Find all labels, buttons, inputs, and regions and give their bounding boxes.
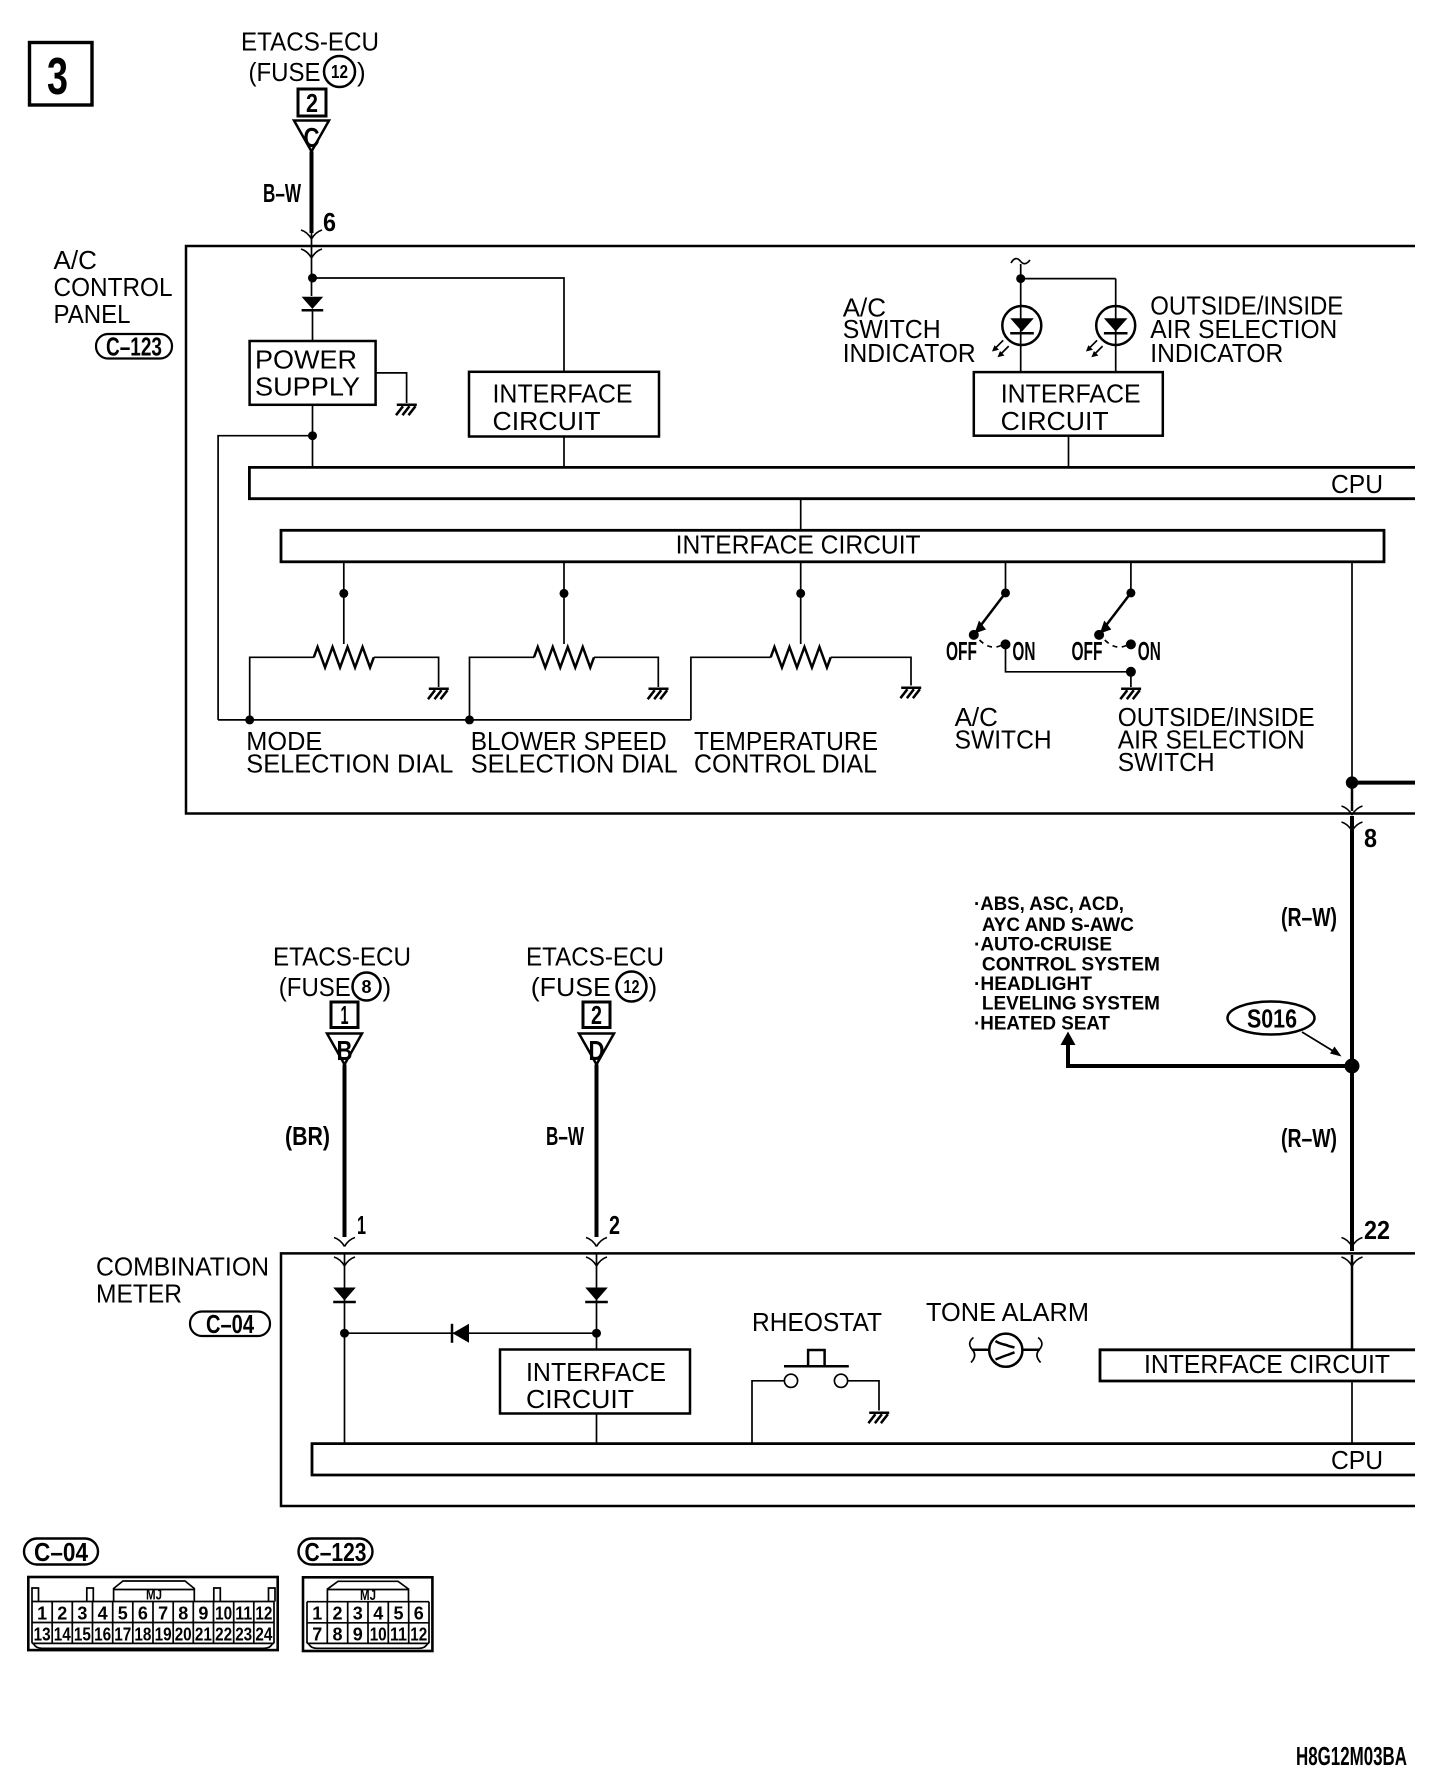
svg-text:·ABS, ASC, ACD,: ·ABS, ASC, ACD, <box>974 893 1124 915</box>
svg-text:ETACS-ECU: ETACS-ECU <box>273 942 411 972</box>
contact OFF (air selection switch) <box>1094 630 1104 640</box>
svg-text:3: 3 <box>47 48 68 106</box>
wire interface box U3 to CPU <box>596 1414 598 1444</box>
svg-text:CONTROL: CONTROL <box>54 272 173 302</box>
wire pin6 into panel <box>311 233 313 296</box>
svg-text:20: 20 <box>175 1625 192 1645</box>
svg-text:8: 8 <box>178 1604 188 1624</box>
arrowhead switch arm <box>975 621 987 634</box>
svg-text:(FUSE: (FUSE <box>249 57 321 87</box>
node switch common junction <box>1126 667 1136 677</box>
svg-text:7: 7 <box>158 1604 168 1624</box>
svg-text:SELECTION DIAL: SELECTION DIAL <box>471 748 678 778</box>
svg-text:CPU: CPU <box>1331 1445 1383 1475</box>
diode D4 (cross link, pointing left) <box>452 1324 469 1343</box>
svg-text:(R–W): (R–W) <box>1281 1123 1337 1153</box>
interface circuit box U1 <box>469 372 659 437</box>
ground (power supply) <box>396 405 417 416</box>
pin 22 chevron above <box>1342 1238 1363 1247</box>
svg-text:INDICATOR: INDICATOR <box>843 338 976 368</box>
connector C-123 pinout <box>303 1577 432 1651</box>
connector C-04 pinout <box>28 1577 277 1650</box>
label A/C SWITCH <box>955 702 1052 755</box>
svg-text:12: 12 <box>624 977 640 997</box>
label OUTSIDE/INSIDE AIR SELECTION INDICATOR <box>1150 291 1343 368</box>
svg-text:OFF: OFF <box>946 636 977 666</box>
pin 6 chevron below <box>301 249 322 258</box>
arrow S016 to junction <box>1302 1032 1342 1057</box>
wire branch to second LED <box>1021 278 1116 280</box>
power supply box <box>250 341 376 405</box>
svg-text:D: D <box>589 1035 605 1066</box>
svg-text:5: 5 <box>118 1604 128 1624</box>
svg-text:PANEL: PANEL <box>54 299 131 329</box>
wire pin 22 to interface bar <box>1351 1255 1354 1350</box>
svg-text:CIRCUIT: CIRCUIT <box>1001 406 1109 436</box>
svg-text:24: 24 <box>255 1625 272 1645</box>
connector triangle C <box>294 121 329 154</box>
svg-text:C–123: C–123 <box>106 332 162 362</box>
interface circuit box U3 (meter) <box>500 1350 690 1415</box>
ETACS-ECU pin box 2 lower <box>583 1000 610 1030</box>
svg-text:C–123: C–123 <box>305 1537 367 1567</box>
resistor temperature control dial <box>771 647 831 668</box>
ground (switches) <box>1120 689 1141 700</box>
wire pin 2 inside meter <box>596 1253 598 1349</box>
svg-text:23: 23 <box>235 1625 252 1645</box>
wire B-W thick from triangle C to pin 6 <box>310 152 314 234</box>
wire switch common to ground <box>1130 672 1132 687</box>
node junction pin 8 branch <box>1346 776 1358 788</box>
wire B-W thick from triangle D <box>595 1065 599 1238</box>
wire interface bar to CPU (meter right) <box>1351 1381 1353 1444</box>
svg-text:): ) <box>383 972 392 1002</box>
pin 1 chevron below <box>334 1257 355 1266</box>
wire thick to other systems <box>1066 1043 1352 1066</box>
CPU bar (meter) <box>312 1444 1415 1475</box>
svg-text:CONTROL DIAL: CONTROL DIAL <box>694 748 877 778</box>
pin 8 chevron below <box>1342 822 1363 831</box>
svg-text:6: 6 <box>323 207 336 237</box>
wire dial common bus <box>218 719 691 721</box>
pin 22 chevron below <box>1342 1257 1363 1266</box>
interface circuit bar (meter right) <box>1100 1349 1415 1381</box>
label ETACS-ECU (FUSE 12) lower <box>526 942 664 1003</box>
svg-text:15: 15 <box>74 1625 91 1645</box>
node blower wiper <box>560 589 569 598</box>
svg-text:TONE ALARM: TONE ALARM <box>926 1297 1089 1327</box>
contact ON (air selection switch) <box>1126 639 1136 649</box>
svg-text:4: 4 <box>98 1604 108 1624</box>
svg-text:12: 12 <box>255 1604 272 1624</box>
svg-text:ETACS-ECU: ETACS-ECU <box>241 27 379 57</box>
svg-text:14: 14 <box>54 1625 71 1645</box>
ground (rheostat) <box>868 1413 889 1424</box>
wire CPU to interface bar <box>800 499 802 531</box>
pin 6 chevron above <box>301 230 322 239</box>
svg-text:S016: S016 <box>1247 1004 1297 1034</box>
pin 8 chevron above <box>1342 806 1363 815</box>
wire interface box to CPU <box>563 437 565 468</box>
label OUTSIDE/INSIDE AIR SELECTION SWITCH <box>1118 702 1315 777</box>
svg-text:3: 3 <box>77 1604 87 1624</box>
node splice junction S016 <box>1345 1059 1360 1074</box>
wire power supply to ground <box>376 373 407 403</box>
wire from junction to interface circuit box <box>313 278 565 372</box>
splice S016 label <box>1228 1002 1315 1035</box>
svg-text:B: B <box>337 1035 353 1066</box>
svg-text:OFF: OFF <box>1072 636 1103 666</box>
svg-text:·HEATED SEAT: ·HEATED SEAT <box>974 1012 1110 1034</box>
svg-text:19: 19 <box>155 1625 172 1645</box>
label MODE SELECTION DIAL <box>246 726 453 778</box>
combination meter box <box>281 1253 1415 1506</box>
svg-text:1: 1 <box>341 1000 349 1030</box>
svg-text:8: 8 <box>1364 823 1377 853</box>
svg-text:(FUSE: (FUSE <box>531 972 611 1002</box>
svg-text:B–W: B–W <box>546 1121 584 1151</box>
ETACS-ECU pin box 1 <box>331 1000 358 1030</box>
svg-text:3: 3 <box>353 1604 363 1624</box>
wire mode dial wiper <box>343 562 345 644</box>
label BLOWER SPEED SELECTION DIAL <box>471 726 678 778</box>
svg-text:2: 2 <box>591 1000 602 1030</box>
svg-text:12: 12 <box>410 1625 427 1645</box>
A/C control panel box <box>186 246 1415 814</box>
label COMBINATION METER <box>96 1252 269 1309</box>
node junction pin1 branch <box>340 1329 349 1338</box>
connector triangle D <box>579 1034 614 1067</box>
svg-text:17: 17 <box>114 1625 131 1645</box>
LED A/C switch indicator <box>992 306 1041 357</box>
arrowhead switch arm 2 <box>1100 621 1112 634</box>
node junction pin2 branch <box>592 1329 601 1338</box>
svg-text:11: 11 <box>235 1604 252 1624</box>
coil squiggle on LED feed <box>1011 259 1030 264</box>
wire junction to pin 8 <box>1351 783 1354 811</box>
wire thick to panel edge <box>1352 781 1415 785</box>
label other systems list <box>974 893 1160 1034</box>
wire air selection switch feed <box>1130 562 1132 593</box>
svg-text:1: 1 <box>37 1604 47 1624</box>
node mode wiper <box>339 589 348 598</box>
svg-text:B–W: B–W <box>263 178 301 208</box>
wire blower dial wiper <box>563 562 565 644</box>
svg-text:1: 1 <box>357 1210 366 1240</box>
svg-text:): ) <box>649 972 658 1002</box>
svg-text:22: 22 <box>1364 1215 1390 1245</box>
label TEMPERATURE CONTROL DIAL <box>694 726 878 778</box>
connector label C-04 <box>190 1309 270 1339</box>
wire blower dial left lead <box>470 657 535 720</box>
svg-text:13: 13 <box>34 1625 51 1645</box>
svg-text:4: 4 <box>373 1604 383 1624</box>
svg-text:10: 10 <box>215 1604 232 1624</box>
svg-text:(BR): (BR) <box>285 1121 330 1151</box>
svg-text:10: 10 <box>370 1625 387 1645</box>
wire branch to dial common bus <box>218 436 312 720</box>
rheostat symbol <box>784 1350 849 1387</box>
switch arm A/C switch <box>978 593 1006 629</box>
svg-text:2: 2 <box>306 88 318 118</box>
wire rheostat left to CPU <box>752 1381 784 1444</box>
svg-text:SWITCH: SWITCH <box>1118 747 1215 777</box>
label A/C SWITCH INDICATOR <box>843 292 976 368</box>
node junction below power supply <box>308 431 317 440</box>
svg-text:16: 16 <box>94 1625 111 1645</box>
wire pin 1 inside meter <box>344 1253 346 1443</box>
svg-text:C–04: C–04 <box>206 1309 254 1339</box>
diode D2 (pin 1) <box>333 1288 356 1303</box>
connector label C-04 (bottom) <box>24 1537 98 1567</box>
svg-text:A/C: A/C <box>54 245 97 275</box>
wire temperature dial wiper <box>800 562 802 644</box>
svg-text:METER: METER <box>96 1279 182 1309</box>
svg-text:·AUTO-CRUISE: ·AUTO-CRUISE <box>974 934 1112 956</box>
node junction LED feed <box>1016 274 1025 283</box>
svg-text:POWER: POWER <box>255 345 357 375</box>
label ETACS-ECU (FUSE 8) <box>273 942 411 1003</box>
wire mode dial right lead to ground <box>374 657 439 687</box>
svg-text:INTERFACE: INTERFACE <box>526 1357 666 1387</box>
dashed link OFF-ON 2 <box>1105 640 1127 647</box>
svg-text:11: 11 <box>390 1625 407 1645</box>
arrowhead to other systems <box>1061 1032 1076 1046</box>
label ETACS-ECU (FUSE 12) top <box>241 27 379 88</box>
svg-text:8: 8 <box>332 1625 342 1645</box>
diode D1 (power supply feed) <box>302 297 324 341</box>
ground (temperature dial) <box>900 688 921 699</box>
svg-text:6: 6 <box>138 1604 148 1624</box>
svg-text:C–04: C–04 <box>34 1537 88 1567</box>
svg-text:(FUSE: (FUSE <box>279 972 351 1002</box>
wire mode dial left lead <box>250 657 314 720</box>
svg-text:2: 2 <box>609 1210 620 1240</box>
wire power supply output <box>312 405 314 468</box>
svg-text:2: 2 <box>332 1604 342 1624</box>
wire cross link with diode <box>345 1332 597 1334</box>
svg-text:LEVELING SYSTEM: LEVELING SYSTEM <box>982 993 1160 1015</box>
wire BR thick from triangle B <box>343 1065 347 1238</box>
svg-text:): ) <box>357 57 366 87</box>
node bus blower <box>465 715 474 724</box>
svg-text:RHEOSTAT: RHEOSTAT <box>752 1307 882 1337</box>
node bus mode <box>245 715 254 724</box>
svg-text:6: 6 <box>414 1604 424 1624</box>
connector triangle B <box>327 1034 362 1067</box>
svg-text:ETACS-ECU: ETACS-ECU <box>526 942 664 972</box>
LED outside/inside air selection indicator <box>1086 306 1135 357</box>
node A/C switch pivot <box>1001 588 1010 597</box>
svg-text:7: 7 <box>312 1625 322 1645</box>
resistor mode selection dial <box>314 647 374 668</box>
tone alarm buzzer <box>970 1334 1042 1367</box>
svg-text:9: 9 <box>353 1625 363 1645</box>
svg-text:CIRCUIT: CIRCUIT <box>493 406 601 436</box>
svg-text:H8G12M03BA: H8G12M03BA <box>1296 1741 1407 1771</box>
svg-text:CPU: CPU <box>1331 469 1383 499</box>
ground (mode dial) <box>428 689 449 700</box>
wire CPU output right <box>1351 562 1353 783</box>
pin 2 chevron above <box>586 1238 607 1247</box>
svg-text:INTERFACE: INTERFACE <box>493 378 633 408</box>
svg-text:(R–W): (R–W) <box>1281 902 1337 932</box>
wire A/C switch ON to common <box>1006 644 1131 671</box>
svg-text:5: 5 <box>393 1604 403 1624</box>
svg-text:8: 8 <box>361 977 371 997</box>
svg-text:21: 21 <box>195 1625 212 1645</box>
diode D3 (pin 2) <box>585 1288 608 1303</box>
node junction at power feed <box>308 274 317 283</box>
pin 1 chevron above <box>334 1238 355 1247</box>
wire A/C switch feed <box>1005 562 1007 593</box>
wire LED feed <box>1020 264 1022 372</box>
wire R-W thick down to combination meter <box>1350 816 1354 1251</box>
node temperature wiper <box>796 589 805 598</box>
interface circuit box U2 <box>974 372 1163 436</box>
svg-text:2: 2 <box>57 1604 67 1624</box>
svg-text:C: C <box>304 122 320 153</box>
svg-text:18: 18 <box>134 1625 151 1645</box>
node air selection switch pivot <box>1126 588 1135 597</box>
svg-text:9: 9 <box>198 1604 208 1624</box>
label A/C CONTROL PANEL <box>54 245 173 329</box>
svg-text:ON: ON <box>1012 636 1035 666</box>
svg-text:INTERFACE CIRCUIT: INTERFACE CIRCUIT <box>676 529 921 559</box>
svg-text:CIRCUIT: CIRCUIT <box>526 1384 634 1414</box>
sheet number box 3 <box>30 43 93 107</box>
contact OFF (A/C switch) <box>969 630 979 640</box>
pin 2 chevron below <box>586 1257 607 1266</box>
wire temperature dial left lead <box>691 657 771 720</box>
connector label C-123 (bottom) <box>299 1537 373 1567</box>
svg-text:COMBINATION: COMBINATION <box>96 1252 269 1282</box>
svg-text:12: 12 <box>331 62 348 82</box>
svg-text:INTERFACE CIRCUIT: INTERFACE CIRCUIT <box>1144 1349 1390 1379</box>
svg-text:SUPPLY: SUPPLY <box>255 372 360 402</box>
resistor blower speed selection dial <box>534 647 594 668</box>
switch arm air selection switch <box>1103 593 1131 629</box>
svg-text:INDICATOR: INDICATOR <box>1150 338 1283 368</box>
svg-text:ON: ON <box>1138 636 1161 666</box>
wire temperature dial right lead to ground <box>831 657 911 685</box>
svg-text:SWITCH: SWITCH <box>955 725 1052 755</box>
ground (blower dial) <box>648 689 669 700</box>
CPU bar (A/C panel) <box>249 467 1415 498</box>
interface circuit bar (panel) <box>281 529 1384 561</box>
svg-text:SELECTION DIAL: SELECTION DIAL <box>246 748 453 778</box>
ETACS-ECU pin box 2 <box>298 88 326 118</box>
svg-text:INTERFACE: INTERFACE <box>1001 378 1141 408</box>
connector label C-123 <box>96 332 172 362</box>
wire blower dial right lead to ground <box>594 657 658 687</box>
dashed link OFF-ON <box>980 640 1002 647</box>
wire interface box U2 to CPU <box>1068 436 1070 468</box>
wire rheostat right to ground <box>848 1381 879 1411</box>
svg-text:22: 22 <box>215 1625 232 1645</box>
contact ON (A/C switch) <box>1001 639 1011 649</box>
svg-text:1: 1 <box>312 1604 322 1624</box>
